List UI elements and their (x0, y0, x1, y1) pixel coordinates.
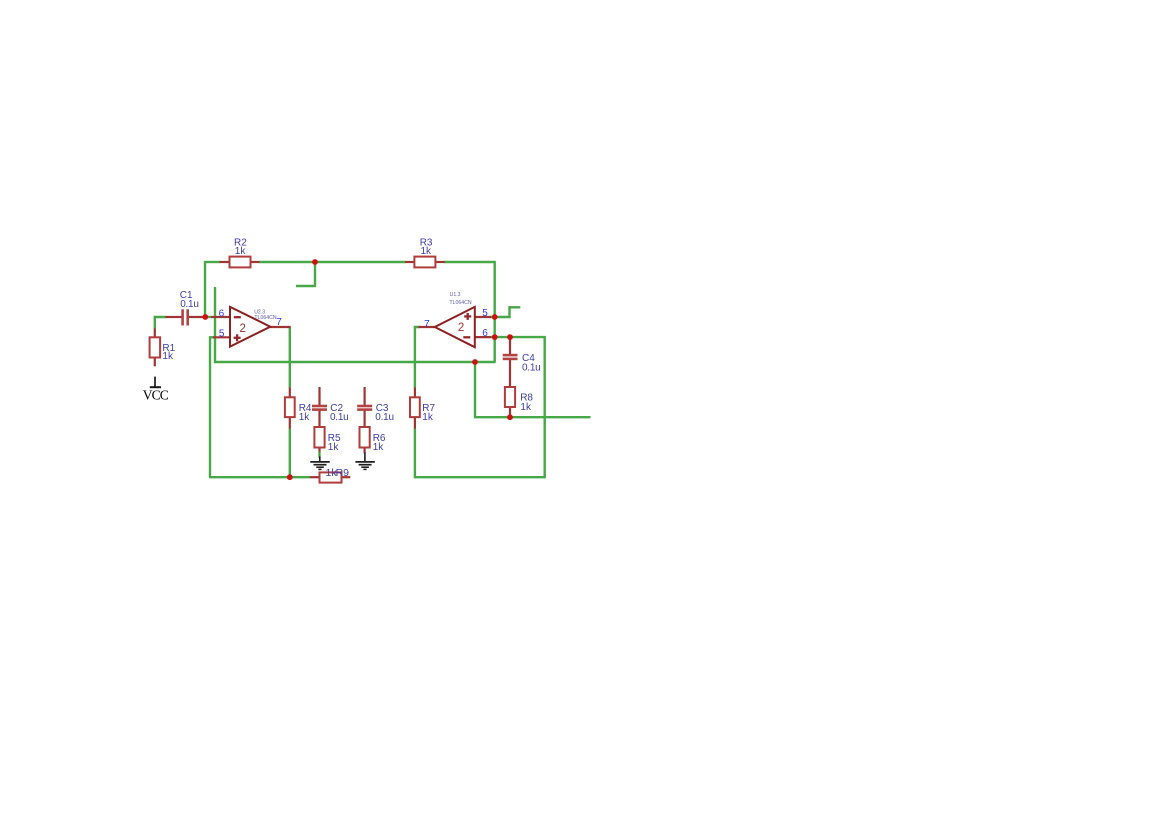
capacitor C1 leads (166, 316, 206, 318)
resistor R8 leads (509, 407, 511, 418)
ground VCC symbol (150, 377, 161, 388)
svg-text:2: 2 (458, 322, 464, 334)
capacitor C3 (357, 406, 372, 410)
resistor R3 leads (405, 261, 445, 263)
op-amp U1.3 pin leads (419, 317, 492, 337)
wire pin5 left corner down to bottom rail (210, 337, 214, 477)
label C4 (522, 353, 540, 373)
op-amp U1.3 input marks (463, 313, 471, 337)
label R6 (373, 433, 386, 453)
label R4 (299, 403, 312, 423)
resistor R4 (285, 397, 295, 417)
svg-text:6: 6 (482, 328, 488, 339)
svg-text:1k: 1k (422, 412, 434, 423)
wire left vertical R2 to C1 node (204, 261, 206, 317)
label R5 (328, 433, 341, 453)
label C2 (330, 403, 348, 423)
wire R5 to ground (318, 452, 320, 458)
wire R4 bottom to rail (289, 428, 291, 477)
capacitor C2 (312, 406, 327, 410)
resistor R7 (410, 397, 420, 417)
resistor R8 (505, 387, 515, 407)
svg-text:1k: 1k (421, 246, 433, 257)
label U2.3 (254, 310, 277, 321)
junction node R8 bottom (507, 414, 513, 420)
resistor R1 (150, 337, 161, 357)
resistor R4 leads (289, 388, 291, 429)
resistor R5 leads (318, 447, 320, 452)
wire mid horizontal feedback y=362 (214, 361, 496, 363)
svg-text:7: 7 (424, 319, 430, 330)
wire top net R2-R3 row (205, 261, 496, 263)
svg-text:1k: 1k (373, 442, 385, 453)
svg-text:VCC: VCC (143, 387, 169, 402)
junction node C4 top (507, 334, 513, 340)
label R2 (234, 238, 247, 258)
capacitor C1 (183, 309, 188, 325)
resistor R7 leads (414, 388, 416, 429)
capacitor C4 leads (509, 337, 511, 387)
wire U1 output corner (415, 327, 420, 388)
label R1 (162, 343, 175, 362)
svg-text:0.1u: 0.1u (375, 412, 393, 423)
resistor R3 (414, 257, 435, 268)
resistor R9 leads (310, 476, 351, 478)
label C1 (180, 290, 199, 310)
svg-text:1k: 1k (235, 246, 247, 257)
junction node R2/R3 (312, 259, 318, 265)
ground below R5 (310, 457, 329, 470)
svg-text:TL064CN: TL064CN (254, 315, 276, 321)
resistor R1 leads (154, 329, 156, 367)
capacitor C4 (503, 355, 518, 359)
label R3 (420, 238, 433, 258)
svg-text:6: 6 (219, 309, 225, 320)
svg-text:5: 5 (482, 308, 488, 319)
svg-text:0.1u: 0.1u (522, 362, 540, 373)
label U1.3 (449, 292, 471, 306)
resistor R5 (314, 427, 324, 448)
op-amp U2.3 input marks (234, 317, 241, 341)
wire pin5 right with step stub (491, 307, 521, 317)
op-amp U1.3 (435, 307, 475, 347)
svg-text:0.1u: 0.1u (180, 299, 198, 310)
op-amp U2.3 (230, 307, 270, 347)
label R8 (520, 392, 533, 412)
svg-text:1k: 1k (299, 412, 311, 423)
resistor R2 (230, 257, 251, 268)
junction node C1/R2 (202, 314, 208, 320)
label R7 (422, 403, 435, 423)
op-amp U2.3 pin leads (211, 317, 291, 337)
resistor R6 (360, 427, 370, 448)
wire pin6 right horizontal (491, 336, 546, 338)
capacitor C3 leads (364, 387, 366, 428)
wire C4 node down branch (475, 361, 591, 417)
svg-text:U1.3: U1.3 (450, 292, 461, 298)
svg-text:7: 7 (276, 317, 282, 328)
junction node R4/rail (287, 474, 293, 480)
svg-text:TL064CN: TL064CN (449, 300, 471, 306)
svg-text:5: 5 (219, 328, 225, 339)
wire U2 output down (289, 328, 291, 388)
wire hook stub at node A (296, 262, 315, 287)
wire C1 left corner (155, 317, 166, 329)
wire left stub vertical x=215 (214, 287, 216, 363)
wire bottom rail to R9 (209, 476, 310, 478)
wire R7 bottom loop to pin6 net (415, 336, 545, 477)
svg-text:1k: 1k (162, 351, 174, 362)
wire C1 node to pin 6 (205, 316, 212, 318)
junction node U1 pin5 (492, 314, 498, 320)
resistor R9 (320, 472, 342, 482)
ground below R6 (355, 453, 374, 470)
junction node feedback/C4 branch (472, 359, 478, 365)
label C3 (375, 403, 393, 423)
resistor R6 leads (364, 447, 366, 454)
svg-text:R9: R9 (336, 467, 350, 479)
resistor R2 leads (220, 261, 260, 263)
svg-text:1k: 1k (328, 442, 340, 453)
svg-text:0.1u: 0.1u (330, 412, 348, 423)
capacitor C2 leads (318, 387, 320, 428)
wire right vertical to right op-amp (494, 261, 496, 362)
junction node U1 pin6 (492, 334, 498, 340)
svg-text:1k: 1k (520, 402, 532, 413)
svg-text:2: 2 (240, 323, 246, 335)
